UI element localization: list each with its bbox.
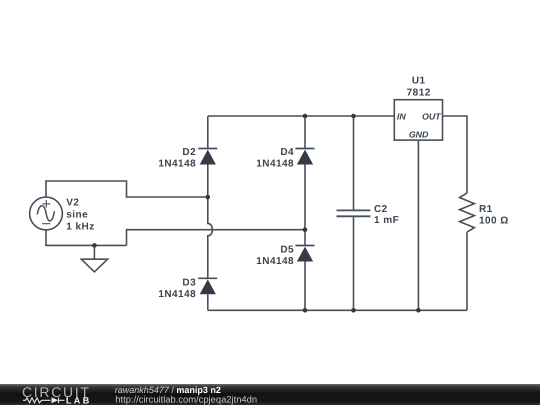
diode D3: [198, 278, 217, 294]
wire D3 to bottom rail: [207, 294, 209, 310]
V2 value label: [66, 198, 94, 233]
capacitor C2: [337, 210, 371, 216]
wire C2 top: [353, 116, 355, 210]
footer attribution text: [115, 385, 257, 404]
diode D2: [198, 149, 217, 165]
ground: [81, 245, 107, 272]
D5 label: [256, 245, 294, 267]
regulator U1: [394, 100, 442, 140]
D4 label: [256, 147, 294, 169]
U1 label: [407, 76, 431, 99]
svg-text:1 mF: 1 mF: [374, 215, 399, 226]
svg-text:IN: IN: [397, 112, 406, 122]
wire D2/D3 rail upper: [207, 116, 209, 149]
svg-text:7812: 7812: [407, 88, 431, 99]
C2 label: [374, 204, 399, 226]
svg-text:C2: C2: [374, 204, 388, 215]
junction bottom rail at U1 GND: [416, 308, 421, 313]
diode D5: [295, 246, 314, 262]
wire V2 plus terminal to D2/D3 rail: [46, 181, 208, 197]
svg-text:D5: D5: [280, 245, 294, 256]
svg-text:1N4148: 1N4148: [256, 158, 294, 169]
wire R1 to bottom rail: [466, 232, 468, 310]
junction top rail at D4: [303, 114, 308, 119]
svg-text:1 kHz: 1 kHz: [66, 221, 94, 232]
resistor R1: [460, 193, 475, 232]
wire D5 to bottom rail: [304, 262, 306, 311]
svg-text:U1: U1: [412, 76, 426, 87]
footer bar: [0, 384, 540, 405]
R1 label: [479, 204, 509, 227]
wire V2 minus terminal to ground node: [46, 230, 127, 245]
svg-text:V2: V2: [66, 198, 79, 209]
svg-text:1N4148: 1N4148: [256, 256, 294, 267]
junction bottom rail at C2: [351, 308, 356, 313]
svg-text:1N4148: 1N4148: [158, 289, 196, 300]
svg-text:OUT: OUT: [422, 112, 441, 122]
wire U1 GND pin to bottom rail: [417, 140, 419, 310]
diode D4: [295, 149, 314, 165]
svg-text:D4: D4: [280, 147, 294, 158]
junction V2+ at D2/D3 rail: [206, 195, 211, 200]
junction V2- at D4/D5 rail: [303, 227, 308, 232]
wire C2 bottom: [353, 217, 355, 311]
svg-text:100 Ω: 100 Ω: [479, 216, 509, 227]
wire bottom rail: [208, 309, 467, 311]
wire U1 OUT to R1: [443, 116, 468, 193]
svg-text:D3: D3: [182, 278, 196, 289]
junction ground node: [92, 243, 97, 248]
voltage source V2: [30, 197, 63, 230]
wire D4 to D5 rail: [304, 165, 306, 246]
CircuitLab logo: [22, 384, 92, 405]
wire ground node up-jog to D4/D5 rail: [127, 230, 306, 246]
junction bottom rail at D5: [303, 308, 308, 313]
svg-text:http://circuitlab.com/cpjeqa2j: http://circuitlab.com/cpjeqa2jtn4dn: [115, 393, 257, 404]
wire D4/D5 rail upper: [304, 116, 306, 149]
D2 label: [158, 147, 196, 169]
svg-text:R1: R1: [479, 204, 493, 215]
svg-text:D2: D2: [182, 147, 196, 158]
svg-text:sine: sine: [66, 209, 88, 220]
svg-text:GND: GND: [409, 130, 429, 140]
svg-text:LAB: LAB: [66, 395, 92, 405]
junction top rail at C2: [351, 114, 356, 119]
wire top rail D2 to U1 IN: [208, 115, 394, 117]
wire D2 to D3 rail with hop over crossing: [208, 165, 213, 279]
svg-text:1N4148: 1N4148: [158, 158, 196, 169]
D3 label: [158, 278, 196, 300]
